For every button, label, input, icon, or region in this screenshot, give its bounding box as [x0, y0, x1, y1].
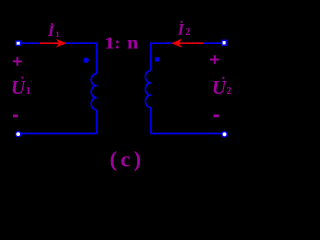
svg-text:I: I [47, 23, 55, 40]
terminal 2' (port2 bottom, round) [221, 131, 227, 137]
svg-text:I: I [177, 22, 185, 39]
terminal 1 (port1 top, square) [15, 40, 21, 46]
svg-text::: : [115, 34, 121, 53]
svg-text:(c): (c) [110, 147, 145, 172]
wire: port1 bottom horizontal (to bottom-left terminal) [21, 133, 97, 135]
label U1 (voltage phasor) [11, 77, 31, 99]
wire: port2 vertical lower (coil L2 bottom to bottom rail) [150, 108, 152, 134]
label + (port2 polarity) [210, 55, 219, 64]
svg-text:1: 1 [55, 29, 59, 39]
current arrow I2 (red, pointing left) [171, 39, 203, 48]
svg-text:U: U [11, 78, 26, 99]
svg-text:U: U [212, 78, 227, 99]
svg-text:1: 1 [26, 86, 31, 97]
label - (port2 polarity) [214, 114, 219, 117]
coil L2 junction ticks [147, 82, 151, 84]
svg-text:2: 2 [185, 27, 190, 38]
svg-text:n: n [127, 34, 139, 54]
wire: port1 vertical lower (coil L1 bottom to bottom rail) [96, 110, 98, 134]
wire: port1 top horizontal (terminal to corner) [21, 42, 97, 44]
inductor L1 (primary winding, 3 turns) [91, 74, 96, 110]
label U2 (voltage phasor) [212, 77, 232, 99]
terminal 2 (port2 top, square) [221, 40, 227, 46]
polarity dot (L1) [83, 58, 88, 63]
label turns ratio 1:n [104, 34, 139, 54]
label + (port1 polarity) [13, 57, 22, 66]
wire: port2 top horizontal (terminal to corner) [151, 42, 221, 44]
svg-text:2: 2 [226, 86, 231, 97]
label - (port1 polarity) [13, 115, 18, 118]
current arrow I1 (red, pointing right) [40, 39, 67, 48]
svg-text:1: 1 [104, 35, 115, 53]
wire: port2 left vertical upper (corner down to coil L2 top) [150, 42, 152, 70]
wire: port2 bottom horizontal (to bottom-right terminal) [151, 133, 222, 135]
wire: port1 right vertical upper (corner down to coil L1 top) [96, 42, 98, 73]
terminal 1' (port1 bottom, round) [15, 131, 21, 137]
label I2 (current phasor) [177, 21, 191, 39]
polarity square (L2) [155, 57, 159, 61]
label I1 (current phasor) [47, 23, 60, 40]
inductor L2 (secondary winding, 3 turns) [145, 71, 150, 108]
coil L1 junction ticks [93, 85, 97, 87]
